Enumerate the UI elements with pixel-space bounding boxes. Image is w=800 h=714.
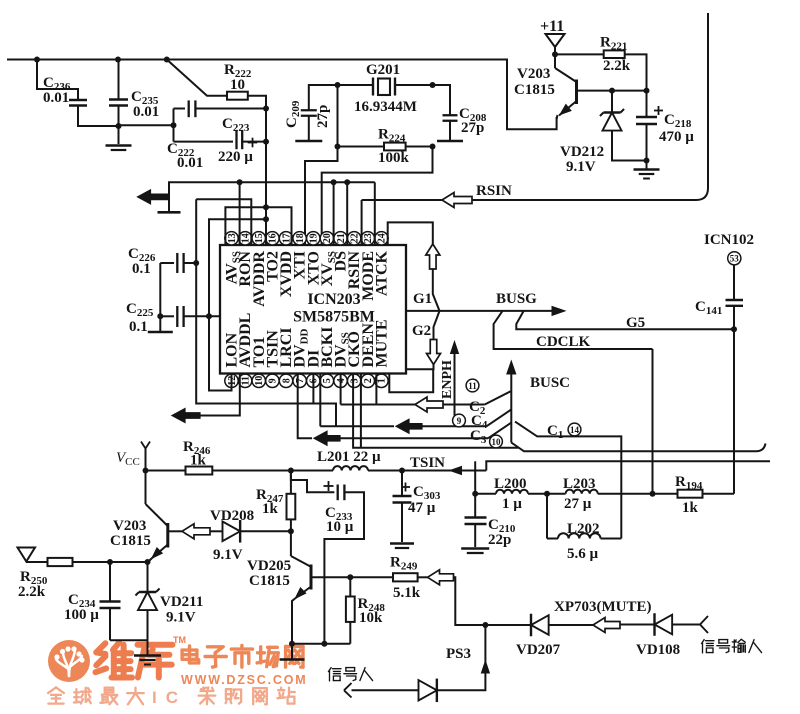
svg-text:10: 10 [230,77,245,93]
svg-text:ICN102: ICN102 [704,232,754,248]
svg-text:V203: V203 [517,66,550,82]
bus line y182 with ground stub and black arrow [169,182,375,211]
svg-text:L202: L202 [567,521,600,537]
solid arrow left (C3 line) [314,431,340,445]
svg-text:1: 1 [377,378,388,383]
open arrow RSIN pointing left [442,193,472,208]
node dot rail/VD211 [145,559,151,565]
pin 14 circle (top) [238,232,251,245]
svg-text:9.1V: 9.1V [566,159,596,175]
pin ref 14 circled [568,423,581,436]
diode VD108 (pointing left) [620,624,655,626]
bar terminal below C225 [148,331,173,334]
wire TSIN with left arrowhead [402,470,486,472]
up arrowhead on PS3 vertical [481,661,489,673]
wire crystal-left to pin19 XTI [337,85,339,147]
svg-text:2.2k: 2.2k [603,58,631,74]
capacitor C235 [118,60,120,100]
svg-text:G1: G1 [413,291,432,307]
svg-text:VD212: VD212 [560,144,604,160]
capacitor C233 10u [291,471,335,492]
wire pin5 down to C4 line [319,375,321,427]
svg-text:18: 18 [295,233,306,243]
pin 6 circle (bottom) [307,374,320,387]
svg-text:19: 19 [309,233,320,243]
resistor R246 1k [146,470,186,472]
capacitor C218 470u (polarized) [646,91,648,117]
node dot rail/C235 [115,57,121,63]
svg-text:+11: +11 [540,18,564,35]
wire: top rail from left edge to corner, down and to V203 emitter [7,60,557,130]
wire pin4 down to C2 line [340,375,342,405]
pin 53 of ICN102 [728,252,741,265]
node dot Vcc rail [143,468,149,474]
svg-text:14: 14 [240,233,251,243]
pin 2 circle (bottom) [361,374,374,387]
resistor R247 1k (vertical) [290,471,292,494]
wire signal-in bottom line [352,689,419,691]
capacitor C226 0.1 [160,262,174,264]
watermark slogan 全球最大IC采购网站 [48,687,64,703]
diode VD208 9.1V [223,522,241,542]
node dot C225 left [157,313,163,319]
wire C4/9 line with solid arrow to bus [320,425,394,427]
svg-text:C1815: C1815 [249,573,290,589]
svg-text:100 µ: 100 µ [64,607,99,623]
node dot R224 left [335,144,341,150]
inductor L201 22u [291,470,333,472]
node dot +11/R221 [552,51,558,57]
svg-text:0.1: 0.1 [129,319,148,335]
watermark 电子市场网 [182,646,199,663]
node dot pin16-wire/y207 [263,204,269,210]
input connector (signal in right) [700,616,708,625]
wire C141 down to R194 right [733,329,735,493]
svg-text:23: 23 [363,233,374,243]
svg-text:21: 21 [336,233,347,243]
pin 10 circle (bottom) [252,374,265,387]
svg-text:10: 10 [254,376,265,386]
svg-text:15: 15 [254,233,265,243]
wire pin7 down to C3 line [298,375,312,439]
wire pin6 down to loop A bottom [312,375,314,404]
svg-text:24: 24 [377,233,388,243]
svg-text:16: 16 [268,233,279,243]
svg-text:ATCK: ATCK [373,250,390,296]
node dot C218/VD212 bottom [644,158,650,164]
pin ref 11 circled [466,379,479,392]
svg-text:C1815: C1815 [514,82,555,98]
wire C234/VD211 bottom join [110,639,148,641]
transistor VD205 C1815 [290,531,292,556]
ground below C218 [646,161,648,169]
pin 21 circle (top) [334,232,347,245]
wire CDCLK vertical down to L203 node [652,349,654,494]
wire loop from IC bottom edge to ENPH column [389,369,433,392]
wire pin22 vertical [346,182,348,244]
watermark logo circle [48,640,90,682]
node dot C226/loopA [193,260,199,266]
svg-text:220 µ: 220 µ [218,149,253,165]
svg-text:RSIN: RSIN [476,183,512,199]
wire pin2 down [360,375,362,448]
wire C226-C225 left link [159,263,161,331]
svg-text:5.1k: 5.1k [393,585,421,601]
solid arrow left (upper) [138,190,169,204]
ground below C235 [118,126,120,144]
node dot rail/C236 [34,57,40,63]
svg-text:VD207: VD207 [516,642,561,658]
wire from down arrow to IC corner [406,365,434,370]
svg-text:9.1V: 9.1V [166,610,196,626]
svg-text:L200: L200 [494,476,527,492]
svg-text:VD205: VD205 [247,558,291,574]
emitter bottom rail [292,643,350,645]
ENPH line with up arrowhead [454,351,456,416]
svg-text:VD208: VD208 [210,508,254,524]
wire pin23 up to RSIN line [361,200,363,245]
node dot pin16-wire/y219 [263,216,269,222]
wire BUSG branch to CDCLK [494,311,653,349]
svg-text:16.9344M: 16.9344M [354,99,417,115]
svg-text:BUSG: BUSG [496,291,537,307]
label 信号入 [328,668,341,681]
svg-text:CDCLK: CDCLK [536,334,591,350]
capacitor C210 22p [474,494,476,518]
node dot G5/C141 [731,326,737,332]
pin 17 circle (top) [279,232,292,245]
diode VD207 (pointing left) [485,624,531,626]
wire loop B around IC left (C225 node) [209,219,266,390]
pin 5 circle (bottom) [320,374,333,387]
svg-text:MUTE: MUTE [373,320,390,368]
svg-text:9.1V: 9.1V [213,547,243,563]
svg-text:SM5875BM: SM5875BM [293,309,375,326]
capacitor C222 0.01 [174,108,186,110]
svg-text:TM: TM [173,635,186,645]
resistor R250 2.2k [25,561,27,564]
node dot y182/pin14 [237,179,243,185]
pin 22 circle (top) [347,232,360,245]
svg-text:14: 14 [570,425,580,435]
svg-text:10 µ: 10 µ [326,519,354,535]
wire pin11 down to solid arrow [199,375,240,416]
svg-text:V203: V203 [113,518,146,534]
svg-text:BUSC: BUSC [530,375,570,391]
capacitor C225 0.1 [160,315,174,317]
solid arrow left (pin11 line) [172,409,200,423]
svg-text:ICN203: ICN203 [307,291,360,308]
open arrow XP703 line [593,618,620,633]
pin 16 circle (top) [266,232,279,245]
diode PS3 path (pointing right) [419,680,437,700]
node dot C223-right on vertical [263,139,269,145]
svg-text:7: 7 [295,378,306,383]
wire pin1 down to C2 line [375,375,377,405]
node dot rail/R222 branch [164,57,170,63]
node dot C233/rail [321,641,327,647]
inductor L203 27u [547,493,566,495]
wire BUSG branch to G5 [516,311,734,329]
pin 7 circle (bottom) [293,374,306,387]
svg-text:53: 53 [730,254,740,264]
svg-text:0.01: 0.01 [43,90,69,106]
capacitor C208 27p [433,85,451,109]
node dot L200 left [472,491,478,497]
wire C2/11 line with open arrow to bus [341,404,415,406]
svg-text:0.01: 0.01 [133,104,159,120]
svg-text:11: 11 [468,381,477,391]
svg-text:L201 22 µ: L201 22 µ [317,449,381,465]
svg-text:G5: G5 [626,315,645,331]
svg-text:WWW.DZSC.COM: WWW.DZSC.COM [181,673,307,687]
svg-text:10k: 10k [359,610,383,626]
svg-text:27 µ: 27 µ [564,496,592,512]
ground below VD211 [147,640,149,654]
svg-text:1k: 1k [682,500,699,516]
node dot C236/C235 junction [116,123,122,129]
bar terminal below upper arrow [158,211,181,214]
svg-text:2.2k: 2.2k [18,584,46,600]
svg-text:13: 13 [227,233,238,243]
input triangle connector (left) [18,548,36,562]
resistor R249 5.1k [350,576,393,578]
node dot crystal right [430,82,436,88]
svg-text:0.1: 0.1 [132,261,151,277]
svg-text:100k: 100k [378,150,410,166]
wire pin21 vertical [333,182,335,244]
svg-text:8: 8 [281,378,292,383]
pin ref 10 circled [490,435,503,448]
svg-text:G201: G201 [366,62,400,78]
wire R249 corner down to PS3 node [454,577,486,625]
node dot L203/CDCLK [650,491,656,497]
main line L200/L203/R194 [474,461,476,493]
pin 23 circle (top) [361,232,374,245]
watermark 维库 [96,643,133,678]
node dot rail/R247 [288,468,294,474]
svg-text:10: 10 [492,437,502,447]
node dot C222/C235-line [171,122,177,128]
svg-text:XP703(MUTE): XP703(MUTE) [554,599,652,615]
pin 11 circle (bottom) [238,374,251,387]
node dot R224 right [430,144,436,150]
wire loop A around IC left (pin15 to bottom bus) [196,199,336,426]
wire C3 line to bus [340,437,488,439]
svg-text:5: 5 [322,378,333,383]
pin 24 circle (top) [375,232,388,245]
BUSC bus vertical with up arrowhead [510,372,512,443]
wire C1 branch from bus [515,422,621,539]
node dot crystal left [335,82,341,88]
pin 4 circle (bottom) [334,374,347,387]
svg-text:22: 22 [349,233,360,243]
pin 8 circle (bottom) [279,374,292,387]
wire pin24 right to ATCK arrow [388,222,433,244]
resistor R248 10k (vertical) [349,577,351,596]
node dot C222-right on R222 vertical [263,106,269,112]
open arrow down (G2/MUTE) [427,340,441,365]
pin ref 9 circled [453,414,466,427]
svg-text:PS3: PS3 [446,646,471,662]
svg-text:VD108: VD108 [636,642,680,658]
pin 18 circle (top) [293,232,306,245]
svg-text:1 µ: 1 µ [502,496,522,512]
node dot y182/pin22 [344,179,350,185]
pin 3 circle (bottom) [347,374,360,387]
wire pin14 up to bus line y182 [239,182,241,244]
wire IC right to G1/G2 junction and BUSG [406,310,440,312]
Vcc symbol [141,442,146,449]
inductor L200 1u [496,490,528,494]
node dot base/C218 [644,88,650,94]
svg-text:C1815: C1815 [110,533,151,549]
svg-text:22p: 22p [488,532,511,548]
node dot VD208/R247 [288,528,294,534]
svg-text:5.6 µ: 5.6 µ [567,546,599,562]
ground below C303 [390,542,414,545]
transistor V203 C1815 (top) [555,68,577,82]
svg-text:L203: L203 [563,476,596,492]
svg-text:470 µ: 470 µ [659,129,694,145]
pin 1 circle (bottom) [375,374,388,387]
pin 13 circle (top) [225,232,238,245]
base wire with open arrow VD208 [169,530,182,532]
pin 15 circle (top) [252,232,265,245]
node dot PS3 junction [482,622,488,628]
wire pin3 down to line 10 [353,375,518,448]
ground below emitter rail [291,644,293,659]
svg-text:3: 3 [349,378,360,383]
pin 9 circle (bottom) [266,374,279,387]
svg-text:ENPH: ENPH [440,360,455,399]
svg-text:2: 2 [363,378,374,383]
transistor V203 C1815 (bottom) [145,471,147,505]
wire pin13 up, over to pin18 (y207 jog) [225,207,291,244]
input connector (signal in bottom) [344,683,352,690]
capacitor C236 [37,60,78,101]
svg-text:11: 11 [240,376,251,385]
label 信号输入 [702,640,714,653]
wire crystal-right to pin20 XTO [449,85,451,88]
svg-text:IC: IC [152,688,187,707]
wire pin16 vertical (R222/C223 node) [265,142,267,245]
wire G2 diagonal down to MUTE arrow [434,311,440,340]
node dot C225/loopB [206,313,212,319]
svg-text:20: 20 [322,233,333,243]
pin 20 circle (top) [320,232,333,245]
node dot base/VD212 [609,88,615,94]
node dot rail/C303 [399,468,405,474]
zener diode VD212 9.1V [611,91,613,113]
svg-text:27p: 27p [315,105,331,128]
svg-text:1k: 1k [262,501,279,517]
op-amp / IC U1 ICN203 SM5875BM body [220,245,406,374]
wire C235 node to C222 node [119,124,174,126]
BUSC bottom diagonal to hook line [511,443,765,452]
node dot emitter rail [289,641,295,647]
wire BUSG with solid right arrow [440,310,554,312]
svg-text:9: 9 [457,416,462,426]
resistor R224 100k [338,146,385,148]
svg-text:1k: 1k [190,453,207,469]
ground below C210 [461,547,489,550]
svg-text:47 µ: 47 µ [408,500,436,516]
svg-text:VD211: VD211 [160,594,203,610]
wire pin15 up to loop A [196,199,251,244]
capacitor C234 100u [109,562,111,602]
pin 19 circle (top) [307,232,320,245]
resistor R221 2.2k [555,53,604,55]
node dot rail/C234 [107,559,113,565]
node dot y182/pin21 [331,179,337,185]
crystal G201 16.9344M [338,84,373,86]
resistor R222 10 [167,60,227,96]
capacitor C141 [733,265,735,300]
resistor R194 1k [653,493,678,495]
inductor L202 5.6u parallel loop [546,494,548,539]
svg-text:G2: G2 [412,323,431,339]
svg-text:27p: 27p [461,120,484,136]
node dot base/R248 [347,574,353,580]
wire ATCK vertical with open up arrow [426,244,440,269]
pin 12 circle (bottom) [225,374,238,387]
svg-text:0.01: 0.01 [177,155,203,171]
svg-text:9: 9 [268,378,279,383]
wire RSIN from pin23 to right edge, curving up [362,13,708,200]
open arrow on R249 line [428,570,454,585]
zener diode VD211 9.1V [147,562,149,592]
capacitor C209 27p [309,85,338,104]
wire pin24 left vertical from y182 [374,182,376,244]
capacitor C223 220u (polarized) [174,141,234,143]
capacitor C303 47u [401,471,403,497]
node dot L200/L203/L202 [544,491,550,497]
svg-text:TSIN: TSIN [410,455,445,471]
